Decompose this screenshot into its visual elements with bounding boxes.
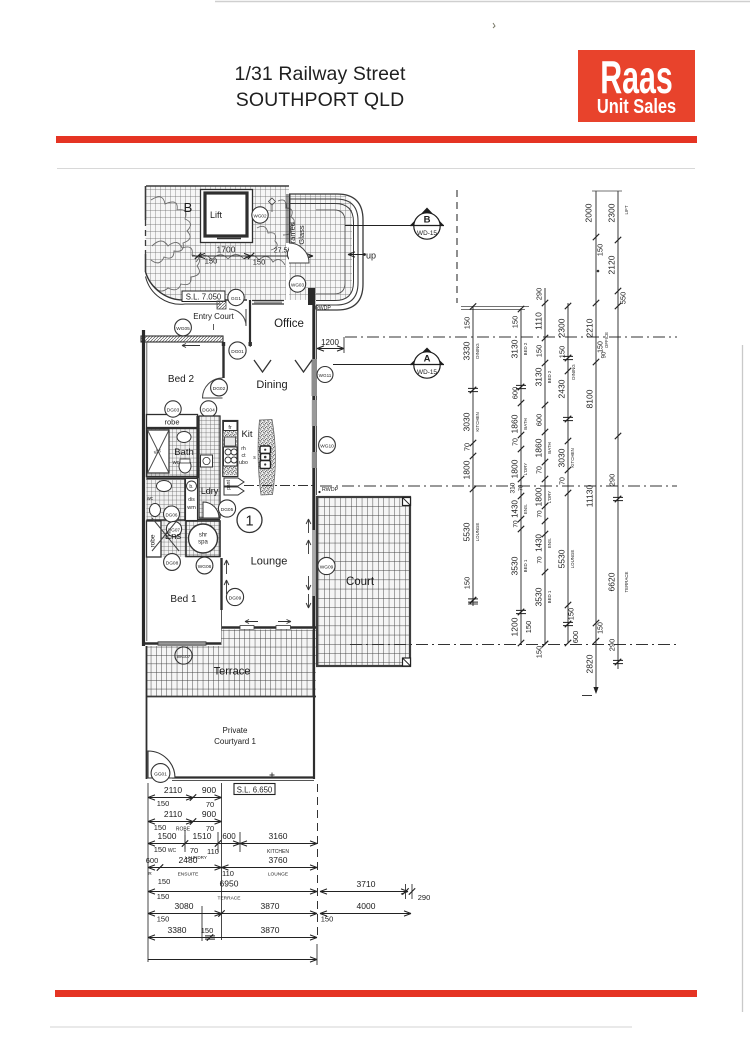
svg-text:900: 900	[202, 785, 216, 795]
ens door leaves	[152, 518, 179, 551]
up arrow walkway	[348, 254, 363, 256]
rounded walkway outer line	[289, 194, 363, 310]
svg-text:fr: fr	[228, 425, 232, 431]
cross mark courtyard wall	[270, 773, 275, 778]
svg-text:150: 150	[511, 316, 520, 329]
svg-text:2110: 2110	[164, 785, 183, 795]
svg-text:KITCHEN: KITCHEN	[475, 412, 480, 431]
chain V5 bottom arrow	[593, 687, 598, 694]
svg-text:70: 70	[513, 520, 520, 528]
svg-text:1860: 1860	[510, 414, 520, 433]
svg-text:WD-15: WD-15	[417, 230, 437, 237]
window WG08 circle	[262, 630, 279, 647]
dim chain x=596	[595, 191, 597, 693]
svg-text:Private: Private	[223, 726, 248, 735]
terrace boundary bottom	[146, 696, 316, 698]
dim 1200 office	[317, 348, 344, 350]
svg-text:600: 600	[571, 631, 580, 644]
header title	[0, 61, 640, 113]
svg-text:Kit: Kit	[241, 429, 252, 440]
speck dot near 2120	[597, 270, 600, 273]
bed1 lounge wall	[220, 558, 222, 610]
dim row 2110 900 second	[148, 821, 222, 823]
washing machine strip	[186, 479, 198, 521]
rounded walkway inner line	[289, 204, 354, 301]
svg-text:wc: wc	[172, 460, 180, 466]
door DG07 circle	[166, 521, 181, 536]
door DG06 circle	[164, 506, 180, 522]
ens basin	[157, 481, 172, 492]
svg-text:DINING: DINING	[571, 364, 576, 380]
svg-text:Bed 2: Bed 2	[168, 374, 195, 385]
red rule bottom	[55, 990, 697, 997]
extension line top of chains	[461, 306, 529, 308]
svg-text:DG05: DG05	[221, 507, 234, 513]
bed2 dining wall	[222, 342, 224, 378]
svg-text:150: 150	[157, 915, 170, 924]
svg-text:6950: 6950	[220, 879, 239, 889]
svg-text:ROBE: ROBE	[176, 827, 191, 833]
entry mat hatched square	[217, 301, 226, 309]
svg-text:3530: 3530	[510, 556, 520, 575]
ensuite hatched floor	[147, 480, 221, 557]
svg-text:B: B	[184, 200, 193, 215]
svg-text:70: 70	[513, 438, 520, 446]
svg-text:290: 290	[608, 639, 617, 652]
svg-text:2300: 2300	[607, 203, 617, 222]
dim row 600 2480 3760	[148, 867, 317, 869]
svg-text:ENS.: ENS.	[523, 504, 528, 514]
svg-text:150: 150	[535, 345, 544, 358]
pantry zigzag	[224, 478, 244, 486]
svg-text:S.L. 7.050: S.L. 7.050	[186, 293, 222, 302]
lift door line	[217, 238, 241, 240]
dim row 3080 3870 4000	[148, 913, 317, 915]
svg-text:pant: pant	[226, 480, 232, 490]
svg-text:3760: 3760	[269, 855, 288, 865]
svg-text:Lounge: Lounge	[251, 556, 288, 568]
svg-text:GG01: GG01	[154, 772, 167, 778]
svg-text:shr: shr	[199, 533, 207, 539]
svg-text:1510: 1510	[193, 831, 212, 841]
svg-text:LIFT: LIFT	[624, 205, 629, 214]
svg-text:robe: robe	[164, 418, 179, 427]
slider arrows	[245, 620, 258, 624]
SL 6.650 level box	[234, 784, 275, 795]
svg-text:3380: 3380	[168, 925, 187, 935]
door DG02 swing	[203, 378, 223, 398]
svg-text:70: 70	[519, 485, 525, 491]
svg-text:3130: 3130	[534, 367, 544, 386]
window WG03 circle	[289, 276, 305, 292]
svg-text:OFFICE: OFFICE	[604, 332, 609, 348]
svg-text:spa: spa	[198, 540, 208, 546]
svg-text:70: 70	[537, 556, 544, 564]
svg-text:TERRACE: TERRACE	[624, 571, 629, 592]
svg-text:Court: Court	[346, 576, 375, 588]
bottom dim vertical extension mid	[221, 783, 223, 940]
svg-text:DG08: DG08	[166, 561, 179, 567]
court corner post bottom	[403, 658, 411, 666]
court corner post top	[403, 498, 411, 506]
dim chain x=618	[617, 191, 619, 669]
svg-text:310: 310	[510, 482, 517, 493]
svg-text:A: A	[424, 354, 431, 365]
dim row 1500 1510 600 3160	[148, 843, 317, 845]
fridge box	[224, 422, 238, 431]
ceiling arrows lounge	[224, 560, 229, 574]
dash-dot line terrace level	[350, 644, 680, 646]
rounded walkway mid line	[289, 199, 358, 305]
section marker B line	[345, 225, 414, 227]
svg-text:b.: b.	[189, 484, 193, 490]
svg-text:wc: wc	[147, 496, 154, 502]
door jambs dining entry	[223, 342, 225, 347]
svg-text:600: 600	[146, 856, 159, 865]
bottom dim vertical extension left	[147, 783, 149, 962]
svg-text:1700: 1700	[217, 245, 236, 255]
scan artifact faint line under header	[57, 168, 695, 170]
svg-text:Entry Court: Entry Court	[193, 312, 234, 321]
island appliance stack	[260, 446, 271, 454]
svg-text:2480: 2480	[179, 855, 198, 865]
svg-text:70: 70	[190, 846, 198, 855]
svg-text:2300: 2300	[557, 318, 567, 337]
laundry door arc	[203, 502, 219, 518]
svg-text:WG05: WG05	[176, 326, 190, 332]
svg-text:70: 70	[560, 477, 567, 485]
svg-text:150: 150	[205, 257, 218, 266]
svg-text:LOUNGE: LOUNGE	[570, 550, 575, 569]
bath hatched floor	[147, 429, 198, 476]
svg-text:ENS.: ENS.	[547, 538, 552, 548]
svg-text:Terrace: Terrace	[214, 666, 251, 678]
framed glass partition wall	[286, 194, 288, 243]
window WG10 circle	[319, 437, 336, 454]
unit number circle	[237, 508, 262, 533]
right wall window blocks	[312, 359, 318, 396]
kitchen sink	[225, 437, 236, 446]
courtyard gate arc	[148, 751, 175, 778]
svg-text:550: 550	[619, 292, 628, 305]
svg-text:dis: dis	[188, 497, 195, 503]
svg-text:L'DRY: L'DRY	[523, 463, 528, 476]
svg-text:ubo: ubo	[239, 460, 248, 466]
office left wall	[249, 300, 251, 342]
svg-text:RWDP: RWDP	[315, 306, 331, 312]
svg-text:BATH: BATH	[547, 442, 552, 453]
courtyard bottom wall	[172, 776, 314, 778]
svg-text:BED 2: BED 2	[547, 370, 552, 383]
svg-text:150: 150	[463, 577, 472, 590]
svg-text:1800: 1800	[534, 487, 544, 506]
top wall opening arrow	[182, 344, 200, 348]
door DG08 circle	[164, 554, 181, 571]
svg-text:DG09: DG09	[229, 596, 242, 602]
svg-text:150: 150	[598, 622, 605, 634]
svg-text:150: 150	[158, 877, 171, 886]
svg-text:LOUNGE: LOUNGE	[268, 872, 288, 878]
svg-text:150: 150	[535, 646, 544, 659]
svg-text:WG06: WG06	[198, 564, 212, 570]
svg-text:2430: 2430	[557, 379, 567, 398]
svg-text:290: 290	[608, 474, 617, 487]
svg-text:rh: rh	[241, 446, 246, 452]
svg-text:DG02: DG02	[213, 386, 226, 392]
svg-text:600: 600	[535, 414, 544, 427]
bath walls	[147, 429, 198, 477]
bed2 top wall hatched	[141, 336, 223, 342]
spa box hatched	[186, 521, 220, 557]
dim chain x=545	[544, 288, 546, 645]
dim chain x=473	[472, 306, 474, 606]
svg-text:1200: 1200	[321, 338, 339, 347]
section marker A line	[333, 364, 414, 366]
svg-text:3030: 3030	[557, 448, 567, 467]
svg-text:Glass: Glass	[297, 225, 306, 244]
red rule top	[56, 136, 697, 143]
svg-text:1200: 1200	[510, 617, 520, 636]
svg-text:2820: 2820	[585, 654, 595, 673]
bath wc	[179, 459, 191, 473]
svg-text:Courtyard 1: Courtyard 1	[214, 737, 256, 746]
scan artifact top page edge	[215, 1, 750, 3]
svg-text:3870: 3870	[261, 901, 280, 911]
window WG06 circle	[196, 557, 213, 574]
window WG07 circle	[175, 647, 192, 664]
door DG01 circle	[229, 342, 246, 359]
window WG05 circle	[175, 319, 192, 336]
chain V1 end bars	[468, 603, 478, 605]
door DG03 circle	[165, 401, 181, 417]
svg-text:1: 1	[245, 514, 253, 530]
entry curved wall	[146, 272, 248, 300]
ensuite walls	[147, 477, 198, 479]
svg-text:2120: 2120	[607, 255, 617, 274]
svg-text:6620: 6620	[607, 572, 617, 591]
bath basin	[177, 432, 191, 443]
shower box with cross	[148, 430, 170, 473]
framed glass inner rounded boundary	[316, 210, 345, 294]
lounge terrace wall with sliders	[222, 626, 317, 628]
svg-text:Dining: Dining	[256, 379, 287, 391]
svg-text:Office: Office	[274, 318, 304, 330]
svg-text:Ens: Ens	[165, 531, 182, 542]
door DG04 circle	[200, 401, 216, 417]
svg-text:11130: 11130	[585, 485, 595, 508]
framed glass lobby hatch	[289, 194, 352, 300]
svg-text:Lift: Lift	[210, 210, 223, 220]
svg-text:5530: 5530	[462, 522, 472, 541]
svg-text:L'DRY: L'DRY	[547, 491, 552, 504]
dim chain x=568	[567, 303, 569, 643]
svg-text:robe: robe	[150, 534, 157, 547]
dim chain x=521	[520, 308, 522, 644]
svg-text:GG1: GG1	[231, 296, 241, 302]
svg-text:1430: 1430	[511, 500, 520, 518]
bottom dim vertical extension mid2	[201, 906, 203, 941]
svg-text:WG09: WG09	[320, 565, 334, 571]
door pivot diamond	[269, 198, 276, 205]
grid dashed line vertical right of plan	[456, 190, 458, 303]
ens robe cell	[147, 521, 162, 557]
bottom dim dashed vertical right	[317, 784, 319, 940]
svg-text:wm: wm	[186, 505, 196, 511]
window WG09 circle	[318, 557, 335, 574]
kitchen bench stipple	[224, 431, 238, 475]
svg-text:70: 70	[463, 443, 472, 451]
dining window V marks	[254, 360, 271, 372]
oven symbol	[224, 447, 238, 466]
svg-text:BED 2: BED 2	[523, 342, 528, 355]
svg-text:S.L. 6.650: S.L. 6.650	[237, 786, 273, 795]
svg-text:up: up	[366, 251, 376, 261]
window WG01 circle	[287, 246, 303, 262]
svg-text:150: 150	[154, 845, 167, 854]
laundry tub	[201, 455, 213, 467]
svg-text:1500: 1500	[158, 831, 177, 841]
svg-text:110: 110	[222, 869, 234, 878]
svg-text:3530: 3530	[534, 587, 544, 606]
svg-text:3870: 3870	[261, 925, 280, 935]
door swing arc entry glass	[289, 243, 309, 263]
svg-text:WG03: WG03	[291, 283, 304, 288]
landscape cloud scallops	[151, 197, 191, 263]
svg-text:5530: 5530	[557, 549, 567, 568]
balcony left edge	[145, 186, 147, 220]
svg-text:Ldry: Ldry	[201, 486, 219, 496]
svg-text:Bath: Bath	[174, 447, 194, 458]
gate GG1 circle	[228, 289, 244, 305]
svg-text:TERRACE: TERRACE	[218, 896, 241, 902]
svg-text:ct: ct	[241, 453, 246, 459]
window WG04 circle	[252, 207, 268, 223]
svg-text:LOUNGE: LOUNGE	[475, 523, 480, 542]
svg-text:150: 150	[596, 244, 605, 257]
svg-text:70: 70	[206, 800, 214, 809]
office top wall window	[252, 300, 284, 302]
svg-text:3710: 3710	[357, 879, 376, 889]
kitchen bench strip	[223, 421, 238, 477]
door DG02 circle	[211, 379, 228, 396]
dim 1700 line	[192, 255, 313, 257]
svg-text:150: 150	[157, 799, 170, 808]
svg-text:WG07: WG07	[177, 654, 191, 660]
marker arrow tick v3 bottom	[542, 641, 548, 647]
svg-text:DG04: DG04	[202, 408, 215, 414]
laundry hatched strip	[199, 416, 220, 518]
scan artifact faint line bottom	[50, 1026, 632, 1028]
svg-text:WG11: WG11	[319, 373, 332, 378]
svg-text:DINING: DINING	[475, 343, 480, 359]
court hatched paving	[317, 497, 410, 666]
svg-text:WD-15: WD-15	[417, 369, 437, 376]
svg-text:WC: WC	[168, 848, 177, 854]
svg-text:2000: 2000	[584, 203, 594, 222]
svg-text:1110: 1110	[534, 312, 544, 330]
svg-text:BED 1: BED 1	[547, 590, 552, 603]
island bench stippled	[258, 420, 275, 496]
svg-text:2210: 2210	[585, 318, 595, 337]
dash-dot line office level	[345, 336, 677, 338]
door DG05 circle	[218, 500, 235, 517]
robe bed2 strip	[147, 415, 198, 428]
scan speck top	[493, 23, 495, 28]
entry door swing	[229, 309, 246, 326]
scan artifact right page edge	[742, 345, 744, 1012]
dash-dot line RWDP level	[320, 485, 677, 487]
dim row 6950 3710	[148, 891, 317, 893]
svg-text:150: 150	[157, 892, 170, 901]
window WG11 circle	[317, 367, 333, 383]
courtyard right wall	[313, 628, 315, 779]
svg-text:KITCHEN: KITCHEN	[570, 448, 575, 467]
dim row 3380 150 3870	[148, 937, 317, 939]
door DG09 circle	[226, 588, 243, 605]
svg-text:290: 290	[535, 288, 544, 301]
svg-text:DG03: DG03	[167, 408, 180, 414]
gate GG01 circle	[151, 764, 170, 783]
svg-text:150: 150	[253, 258, 266, 267]
svg-text:ENSUITE: ENSUITE	[178, 872, 199, 878]
bottom overall line with arrow	[148, 959, 317, 961]
svg-text:2110: 2110	[164, 809, 183, 819]
svg-text:3160: 3160	[269, 831, 288, 841]
svg-text:3330: 3330	[462, 341, 472, 360]
svg-text:RWDP: RWDP	[322, 487, 339, 493]
svg-text:BATH: BATH	[523, 418, 528, 429]
balcony hatched common area	[146, 186, 290, 300]
svg-text:90: 90	[602, 351, 608, 358]
svg-text:3030: 3030	[462, 412, 472, 431]
left outer wall	[142, 330, 145, 646]
ens wc	[150, 504, 161, 517]
svg-text:1860: 1860	[534, 438, 544, 457]
svg-text:150: 150	[567, 608, 576, 621]
bed1 window wall	[144, 642, 222, 644]
svg-text:70: 70	[537, 466, 544, 474]
svg-text:1800: 1800	[510, 459, 520, 478]
svg-text:150: 150	[524, 621, 533, 634]
centre dash-dot line kitchen	[244, 485, 316, 487]
balcony top edge	[146, 185, 289, 187]
svg-text:70: 70	[537, 510, 544, 518]
svg-text:150: 150	[201, 926, 214, 935]
svg-text:Bed 1: Bed 1	[170, 594, 197, 605]
section marker A symbol	[410, 348, 444, 365]
svg-text:s: s	[253, 455, 256, 461]
svg-text:150: 150	[463, 317, 472, 330]
svg-text:150: 150	[321, 915, 334, 924]
svg-text:WG10: WG10	[320, 444, 334, 450]
shr spa circle	[189, 524, 218, 553]
section marker B symbol	[410, 208, 444, 226]
terrace hatched floor	[146, 630, 316, 698]
lift cab	[205, 193, 247, 236]
svg-text:BED 1: BED 1	[523, 559, 528, 572]
svg-text:3080: 3080	[175, 901, 194, 911]
svg-text:900: 900	[202, 809, 216, 819]
svg-text:1430: 1430	[535, 534, 544, 552]
unit right wall	[312, 288, 315, 628]
dim row 2110 900	[148, 797, 222, 799]
svg-text:WG02: WG02	[253, 214, 266, 219]
svg-text:3130: 3130	[510, 339, 520, 358]
svg-text:R: R	[148, 871, 152, 876]
courtyard left wall	[146, 646, 148, 779]
svg-text:290: 290	[418, 893, 431, 902]
svg-text:4000: 4000	[357, 901, 376, 911]
